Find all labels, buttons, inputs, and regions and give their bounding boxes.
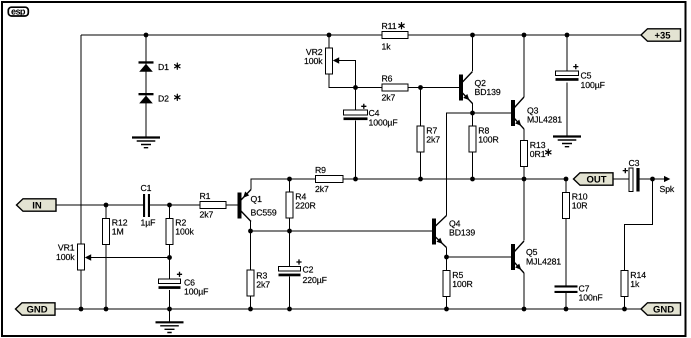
svg-text:1000µF: 1000µF: [369, 117, 398, 127]
svg-text:esp: esp: [11, 7, 26, 17]
svg-text:BC559: BC559: [251, 208, 277, 218]
svg-text:100µF: 100µF: [581, 80, 605, 90]
svg-text:C4: C4: [369, 108, 380, 118]
svg-text:C1: C1: [141, 183, 152, 193]
svg-text:Q5: Q5: [526, 247, 538, 257]
svg-text:1M: 1M: [112, 227, 124, 237]
svg-text:OUT: OUT: [586, 175, 606, 186]
svg-text:10R: 10R: [572, 201, 588, 211]
svg-text:2k7: 2k7: [256, 280, 270, 290]
svg-text:Q1: Q1: [251, 194, 263, 204]
svg-text:1µF: 1µF: [141, 217, 156, 227]
svg-text:C5: C5: [581, 70, 592, 80]
svg-text:MJL4281: MJL4281: [526, 256, 561, 266]
svg-text:220µF: 220µF: [303, 275, 327, 285]
svg-text:D2: D2: [158, 93, 169, 103]
svg-text:2k7: 2k7: [426, 135, 440, 145]
svg-text:R11: R11: [382, 21, 397, 31]
svg-text:R1: R1: [200, 191, 211, 201]
svg-text:1k: 1k: [630, 279, 640, 289]
svg-text:R6: R6: [382, 73, 393, 83]
svg-text:100µF: 100µF: [184, 287, 208, 297]
svg-text:100R: 100R: [452, 279, 472, 289]
svg-text:IN: IN: [32, 201, 42, 212]
svg-text:100nF: 100nF: [579, 293, 603, 303]
svg-text:MJL4281: MJL4281: [527, 115, 562, 125]
svg-text:2k7: 2k7: [382, 92, 396, 102]
svg-text:D1: D1: [158, 62, 169, 72]
svg-text:BD139: BD139: [475, 87, 501, 97]
svg-text:R9: R9: [315, 165, 326, 175]
svg-text:C2: C2: [303, 265, 314, 275]
svg-text:220R: 220R: [295, 201, 315, 211]
svg-text:100k: 100k: [304, 56, 323, 66]
svg-text:2k7: 2k7: [315, 184, 329, 194]
svg-text:2k7: 2k7: [200, 210, 214, 220]
svg-text:+35: +35: [654, 31, 671, 42]
svg-text:100k: 100k: [175, 227, 194, 237]
svg-text:1k: 1k: [382, 42, 392, 52]
svg-text:0R1: 0R1: [530, 149, 546, 159]
svg-text:100R: 100R: [478, 135, 498, 145]
svg-text:GND: GND: [26, 305, 47, 316]
svg-text:Spk: Spk: [660, 184, 675, 194]
svg-text:C3: C3: [629, 158, 640, 168]
svg-text:100k: 100k: [56, 252, 75, 262]
svg-text:BD139: BD139: [449, 228, 475, 238]
svg-text:GND: GND: [653, 305, 674, 316]
